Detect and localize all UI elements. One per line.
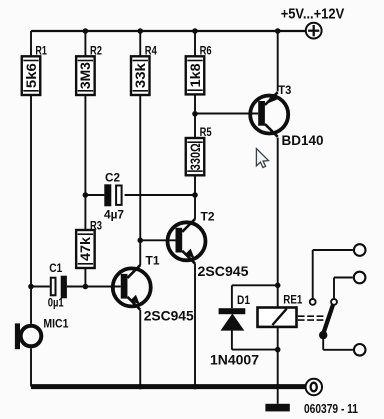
svg-text:D1: D1 [237,293,250,307]
svg-text:5k6: 5k6 [24,63,39,89]
svg-text:1k8: 1k8 [188,63,203,88]
svg-text:0µ1: 0µ1 [48,296,64,310]
svg-text:1N4007: 1N4007 [210,351,259,367]
svg-text:2SC945: 2SC945 [144,308,194,324]
svg-text:R2: R2 [90,43,102,57]
svg-text:R1: R1 [35,43,47,57]
svg-text:BD140: BD140 [282,132,324,148]
svg-text:330Ω: 330Ω [188,143,203,170]
svg-text:R5: R5 [200,125,212,139]
svg-text:T2: T2 [201,209,215,223]
svg-text:C1: C1 [49,261,62,275]
svg-text:RE1: RE1 [283,293,302,307]
svg-text:4µ7: 4µ7 [104,207,124,221]
svg-text:060379 - 11: 060379 - 11 [304,402,358,416]
svg-text:47k: 47k [78,236,93,261]
svg-text:R3: R3 [90,218,102,232]
svg-text:MIC1: MIC1 [43,317,68,331]
svg-text:3M3: 3M3 [78,62,93,90]
svg-text:R6: R6 [200,43,212,57]
svg-text:C2: C2 [105,170,120,184]
svg-text:T1: T1 [146,253,160,267]
svg-text:T3: T3 [278,83,291,97]
svg-text:R4: R4 [145,43,157,57]
svg-text:2SC945: 2SC945 [198,263,249,279]
svg-text:33k: 33k [133,63,148,89]
svg-text:+5V...+12V: +5V...+12V [281,5,345,22]
